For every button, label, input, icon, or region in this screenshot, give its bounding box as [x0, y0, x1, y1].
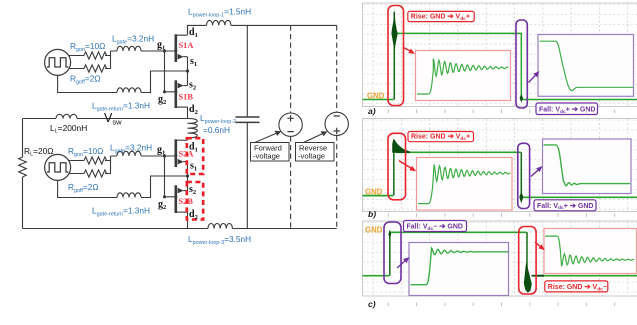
inductor LL: [56, 114, 77, 118]
inset: panel a rise zoom (pink border): [416, 51, 511, 101]
transistor S1B: [176, 80, 188, 108]
waveform: panel c main trace: [363, 232, 637, 275]
inductor Lpowerloop-3: [208, 223, 232, 228]
inset: panel b rise zoom (pink border): [417, 158, 513, 211]
annotation: panel a red arrow: [404, 48, 410, 51]
inductor Lgate-return: [117, 88, 141, 93]
svg-text:=0.6nH: =0.6nH: [203, 125, 230, 135]
annotation: panel b fall label: [534, 200, 596, 211]
annotation: panel b red rounded rect: [388, 133, 406, 200]
annotation: panel c purple arrow: [397, 261, 405, 268]
waveform: panel c fall ringing blob: [524, 262, 532, 293]
wire: Vsw load branch: [23, 118, 188, 120]
wire: left load leg: [22, 119, 24, 229]
wire: Rgon branch: [69, 156, 111, 161]
svg-text:-voltage: -voltage: [253, 152, 280, 161]
annotation: panel c fall label: [404, 221, 467, 232]
transistor S1A: [176, 34, 188, 62]
waveform: panel a rise ringing blob: [391, 9, 397, 52]
node g1 junction: [163, 154, 166, 157]
inductor Lgate: [117, 151, 141, 156]
resistor Rgon: [84, 157, 107, 164]
red dashed outline around S2B: [187, 182, 203, 220]
svg-text:Fall: Vdc+ ➔ GND: Fall: Vdc+ ➔ GND: [537, 201, 593, 211]
wire: DC-link branch: [246, 25, 248, 228]
inset: panel b fall zoom (purple border): [543, 139, 632, 194]
node kelvin midpoint junction: [186, 174, 189, 177]
pulse source Vg1: [45, 49, 71, 75]
inductor Lgate: [117, 46, 141, 51]
node g2 junction: [163, 195, 166, 198]
wire: gate feed: [111, 50, 175, 52]
annotation: panel b purple rounded rect: [518, 143, 530, 208]
wire: Rgon branch: [69, 51, 111, 56]
annotation: panel b rise label: [408, 132, 474, 142]
svg-text:a): a): [368, 106, 376, 116]
wire: Rgoff branch: [69, 161, 111, 174]
wire: dashed link to forward source: [290, 25, 292, 228]
svg-text:S1A: S1A: [179, 41, 194, 50]
waveform: panel c rise corner blob: [388, 230, 391, 240]
wire: bottom power rail: [23, 228, 337, 230]
resistor Rgoff: [84, 170, 107, 177]
resistor RL (vertical): [19, 157, 27, 177]
pulse source Vg2: [45, 154, 71, 180]
node g1 junction: [163, 49, 166, 52]
annotation: panel a purple arrow: [529, 76, 536, 83]
wire: gate return: [58, 71, 188, 93]
waveform: panel a fall corner blob: [520, 94, 523, 103]
inductor Lpowerloop-1: [207, 20, 231, 25]
wire: gate tie g1-g2: [165, 51, 175, 92]
scope panel c) background/grid: [363, 221, 637, 296]
annotation: panel a fall label: [536, 103, 598, 115]
annotation: panel a rise label: [408, 11, 474, 21]
label: Forward-voltage box: [251, 131, 290, 161]
svg-text:S2A: S2A: [179, 150, 194, 159]
axis tick marks row: [388, 213, 614, 217]
svg-text:Fall: Vdc− ➔ GND: Fall: Vdc− ➔ GND: [407, 222, 463, 232]
wire: dashed link to reverse source: [336, 25, 338, 228]
red dashed outline around S2A: [187, 138, 203, 174]
wire: s1-s2 midpoint and d-links (bottom pair): [187, 138, 189, 229]
svg-text:c): c): [368, 299, 376, 309]
wire: gate feed: [111, 155, 175, 157]
annotation: panel b purple arrow: [531, 170, 538, 176]
scope panel b) background/grid: [363, 119, 637, 212]
transistor S2B: [176, 185, 188, 213]
axis tick marks row: [388, 303, 614, 307]
inset: panel c fall-to-gnd zoom (purple border): [409, 243, 509, 296]
waveform: panel b fall undershoot blob: [519, 192, 523, 204]
transistor S2A: [176, 139, 188, 167]
annotation: panel a red rounded rect: [388, 6, 404, 106]
waveform: panel a main trace: [363, 33, 637, 99]
voltage source: reverse: [325, 112, 348, 135]
scope panel a) background/grid: [363, 3, 637, 107]
wire: gate tie g1-g2: [165, 156, 175, 197]
wire: top power rail: [188, 25, 337, 33]
wire: d1 to rail / s1-s2 midpoint (top pair): [187, 25, 189, 118]
annotation: panel c rise label: [545, 281, 608, 292]
label: Reverse-voltage box: [296, 131, 335, 161]
svg-text:S2B: S2B: [179, 197, 194, 206]
svg-text:S1B: S1B: [179, 93, 194, 102]
node g2 junction: [163, 90, 166, 93]
svg-text:RL=20Ω: RL=20Ω: [24, 146, 54, 158]
voltage source: forward: [279, 113, 302, 136]
resistor Rgon: [84, 52, 107, 59]
annotation: panel c red rounded rect: [519, 227, 536, 295]
annotation: panel a purple rounded rect: [516, 20, 527, 108]
waveform: panel b main trace: [363, 152, 637, 197]
wire: gate return: [58, 176, 188, 198]
inductor Lgate-return: [117, 193, 141, 198]
svg-text:b): b): [368, 209, 376, 219]
wire: Rgoff branch: [69, 56, 111, 69]
inset: panel c rise-to-vdc- zoom (red border): [544, 229, 637, 274]
svg-text:GND: GND: [365, 188, 383, 197]
annotation: panel c red arrow: [535, 242, 540, 246]
annotation: panel c purple rounded rect: [384, 222, 401, 284]
annotation: panel b red arrow: [399, 161, 411, 168]
node kelvin midpoint junction: [186, 69, 189, 72]
svg-text:-voltage: -voltage: [298, 152, 325, 161]
axis tick marks row: [388, 110, 614, 114]
svg-text:GND: GND: [367, 92, 385, 101]
inset: panel a fall zoom (purple border): [538, 35, 634, 97]
resistor Rgoff: [84, 65, 107, 72]
inductor Lpowerloop-2 (vertical): [188, 119, 198, 138]
capacitor DC-link: [236, 117, 260, 122]
svg-text:Fall: Vdc+ ➔ GND: Fall: Vdc+ ➔ GND: [539, 105, 595, 115]
svg-text:GND: GND: [365, 226, 383, 235]
waveform: panel b rise overshoot blob: [392, 139, 410, 153]
